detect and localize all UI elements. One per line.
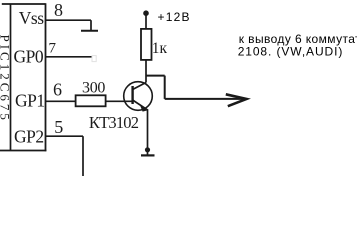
wire pin 8 Vss to ground <box>46 19 92 21</box>
resistor R2 1k <box>141 29 152 60</box>
svg-text:7: 7 <box>49 40 57 56</box>
transistor Q1 base bar <box>131 86 133 104</box>
node emitter junction dot <box>145 147 150 152</box>
svg-text:Vss: Vss <box>19 8 44 28</box>
wire emitter to ground <box>147 110 149 155</box>
pin 7 faint stub artifact <box>92 56 96 62</box>
ground (emitter) <box>141 154 155 156</box>
svg-text:GP2: GP2 <box>14 127 44 147</box>
wire pin8 ground drop <box>90 20 92 31</box>
IC U1 internal divider <box>10 4 12 151</box>
wire output arrow shaft <box>165 98 242 100</box>
wire collector branch vertical <box>164 76 166 99</box>
resistor R1 300 <box>76 95 106 106</box>
IC U1 PIC12C675 body top edge <box>2 3 46 5</box>
svg-text:5: 5 <box>54 117 63 137</box>
node +12V supply dot <box>143 10 149 16</box>
output arrowhead <box>226 94 247 106</box>
svg-text:GP0: GP0 <box>14 47 44 67</box>
transistor Q1 KT3102 circle <box>124 82 153 111</box>
svg-text:КТ3102: КТ3102 <box>89 113 139 132</box>
wire collector to R2 <box>145 61 147 83</box>
wire +12V node to R2 <box>145 12 147 30</box>
wire pin 6 GP1 to R1 <box>46 100 76 102</box>
transistor Q1 emitter arrowhead <box>139 104 148 112</box>
IC U1 body bottom edge <box>0 150 46 152</box>
ground (pin 8) <box>81 30 98 32</box>
svg-text:1к: 1к <box>152 40 168 57</box>
svg-text:8: 8 <box>54 0 63 20</box>
svg-text:GP1: GP1 <box>15 91 45 111</box>
svg-text:PIC12C675: PIC12C675 <box>0 35 13 123</box>
wire collector branch horizontal <box>146 75 165 77</box>
wire pin 5 GP2 <box>46 135 84 137</box>
wire R1 to base of Q1 <box>106 100 133 102</box>
wire pin 7 GP0 stub <box>46 56 93 58</box>
svg-text:6: 6 <box>53 80 62 100</box>
svg-text:2108. (VW,AUDI): 2108. (VW,AUDI) <box>238 44 344 58</box>
svg-text:+12В: +12В <box>158 10 191 24</box>
wire pin 5 vertical to bottom <box>82 136 84 176</box>
transistor Q1 collector diagonal <box>133 83 146 90</box>
transistor Q1 emitter diagonal with arrow <box>133 100 148 110</box>
IC U1 body right edge <box>45 3 47 151</box>
svg-text:300: 300 <box>82 80 105 97</box>
